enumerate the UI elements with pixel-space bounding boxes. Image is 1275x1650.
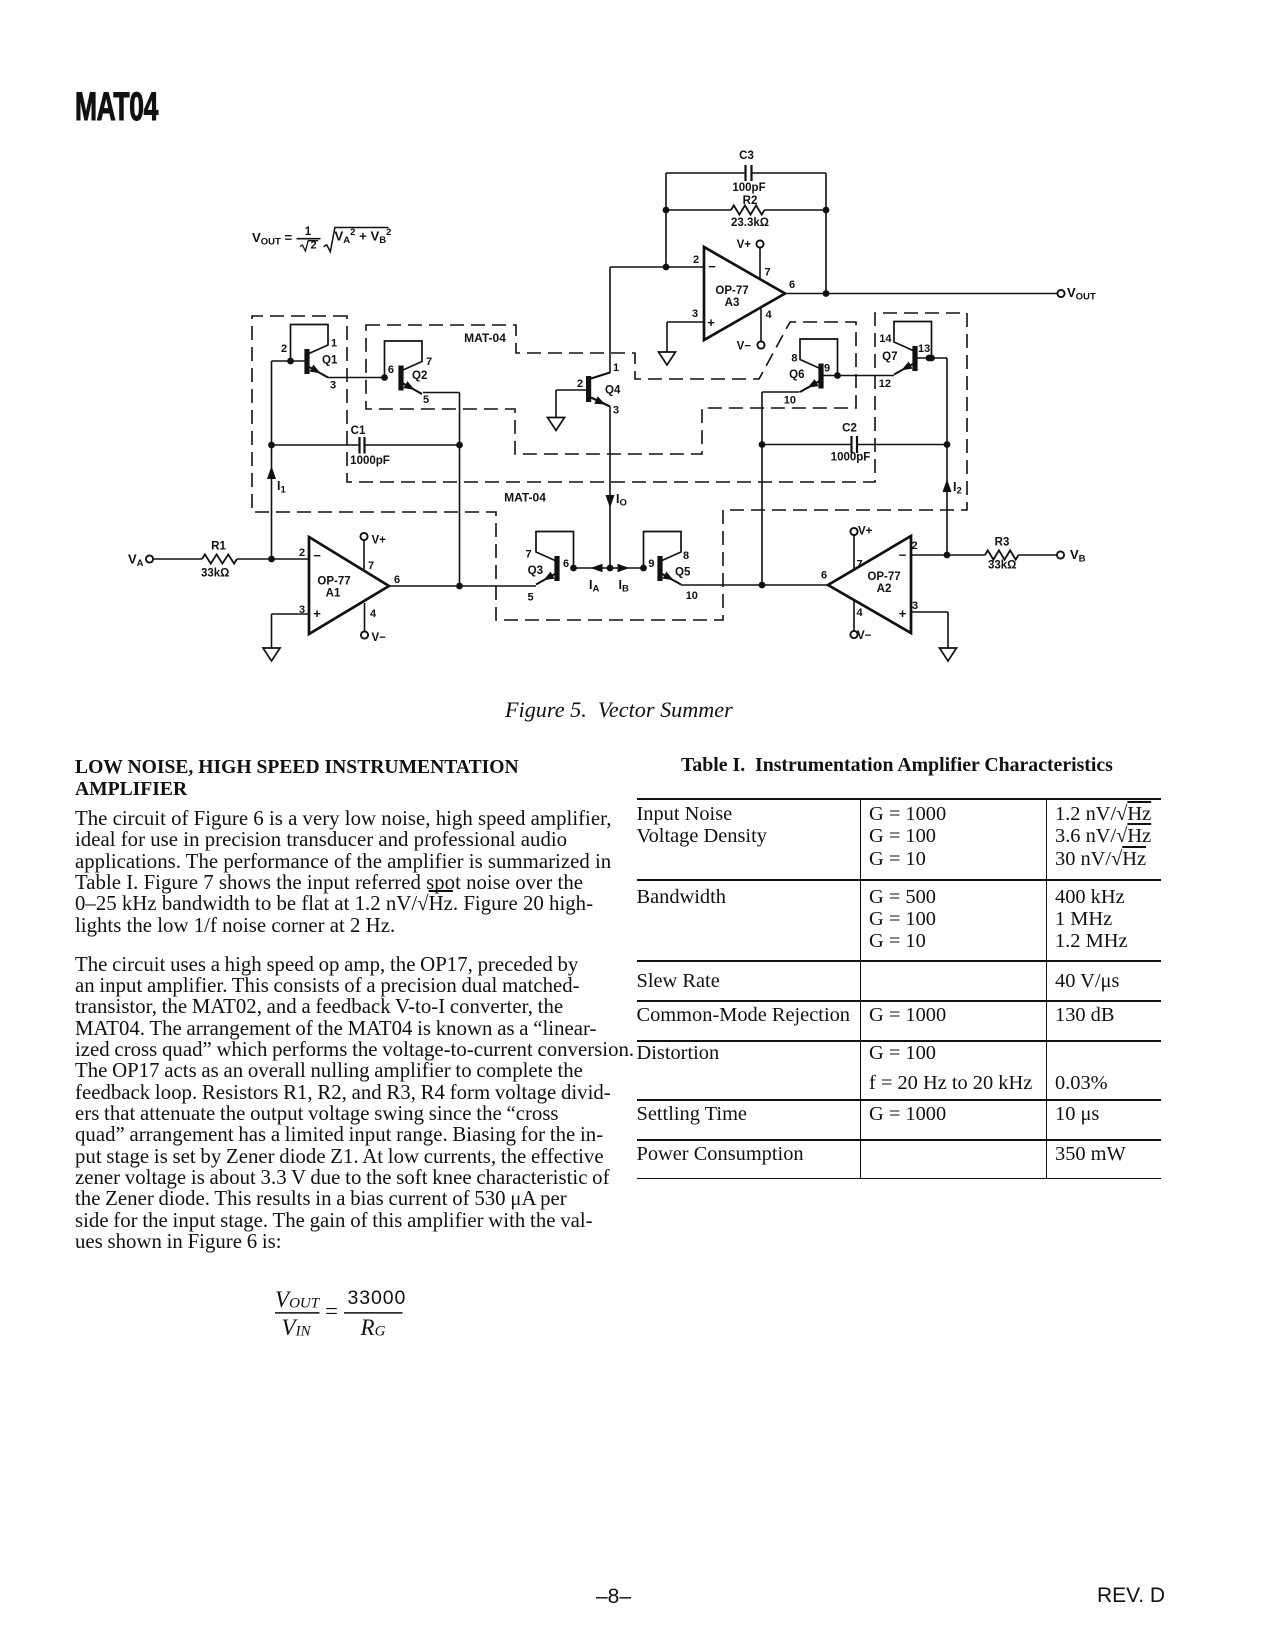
svg-text:Q3: Q3 (528, 565, 543, 577)
svg-text:6: 6 (394, 574, 400, 586)
svg-text:4: 4 (766, 309, 773, 321)
svg-text:7: 7 (525, 549, 531, 561)
svg-text:V−: V− (737, 341, 752, 353)
svg-text:OP-77: OP-77 (867, 571, 900, 583)
svg-text:V+: V+ (372, 535, 387, 547)
svg-text:V+: V+ (858, 526, 873, 538)
svg-text:33kΩ: 33kΩ (988, 560, 1016, 572)
svg-text:Q6: Q6 (789, 369, 804, 381)
svg-text:4: 4 (857, 607, 864, 619)
svg-text:2: 2 (912, 540, 918, 552)
svg-text:14: 14 (879, 333, 892, 345)
svg-text:−: − (313, 548, 321, 563)
svg-text:5: 5 (527, 592, 533, 604)
svg-text:23.3kΩ: 23.3kΩ (731, 217, 769, 229)
svg-text:10: 10 (686, 590, 698, 602)
svg-text:+: + (899, 606, 907, 621)
svg-text:V+: V+ (737, 239, 752, 251)
svg-text:12: 12 (879, 378, 891, 390)
svg-text:Q2: Q2 (412, 370, 427, 382)
svg-text:2: 2 (693, 254, 699, 266)
svg-text:OP-77: OP-77 (317, 576, 350, 588)
svg-text:8: 8 (683, 550, 689, 562)
svg-text:Q5: Q5 (675, 567, 691, 579)
svg-text:V−: V− (372, 632, 387, 644)
svg-text:3: 3 (613, 405, 619, 417)
svg-text:5: 5 (423, 394, 429, 406)
svg-text:1: 1 (613, 362, 619, 374)
svg-text:13: 13 (918, 343, 930, 355)
svg-text:7: 7 (857, 559, 863, 571)
svg-text:6: 6 (789, 279, 795, 291)
svg-text:I1: I1 (277, 479, 286, 496)
svg-text:7: 7 (765, 267, 771, 279)
svg-text:1000pF: 1000pF (831, 452, 871, 464)
svg-text:Q4: Q4 (605, 385, 621, 397)
svg-text:4: 4 (370, 608, 377, 620)
svg-text:C1: C1 (351, 425, 366, 437)
svg-text:8: 8 (791, 353, 797, 365)
svg-text:=: = (325, 1298, 338, 1323)
svg-text:6: 6 (821, 570, 827, 582)
svg-text:IO: IO (616, 492, 627, 509)
svg-text:VIN: VIN (282, 1315, 312, 1340)
svg-text:MAT-04: MAT-04 (464, 331, 506, 345)
svg-text:R1: R1 (211, 541, 226, 553)
svg-text:1000pF: 1000pF (350, 455, 390, 467)
svg-text:6: 6 (388, 364, 394, 376)
svg-text:VB: VB (1070, 547, 1086, 565)
svg-text:VA: VA (128, 552, 144, 570)
svg-text:Q7: Q7 (882, 351, 897, 363)
svg-text:VA2 + VB2: VA2 + VB2 (335, 227, 392, 246)
svg-text:+: + (313, 606, 321, 621)
svg-text:C2: C2 (842, 423, 857, 435)
svg-text:IA: IA (589, 578, 599, 595)
svg-text:3: 3 (912, 600, 918, 612)
svg-text:R3: R3 (995, 537, 1010, 549)
svg-text:RG: RG (360, 1315, 386, 1340)
svg-text:33000: 33000 (348, 1288, 407, 1309)
svg-text:VOUT: VOUT (275, 1288, 321, 1312)
svg-text:3: 3 (692, 308, 698, 320)
svg-text:9: 9 (824, 363, 830, 375)
svg-text:V−: V− (857, 630, 872, 642)
svg-text:2: 2 (281, 343, 287, 355)
svg-text:6: 6 (563, 558, 569, 570)
svg-text:A3: A3 (725, 297, 740, 309)
svg-text:−: − (708, 259, 716, 274)
svg-text:9: 9 (648, 558, 654, 570)
svg-text:OP-77: OP-77 (715, 285, 748, 297)
svg-text:100pF: 100pF (732, 182, 765, 194)
svg-text:VOUT =: VOUT = (252, 230, 293, 248)
svg-text:10: 10 (784, 395, 796, 407)
svg-text:33kΩ: 33kΩ (201, 567, 229, 579)
svg-text:7: 7 (426, 356, 432, 368)
svg-text:−: − (899, 547, 907, 562)
svg-text:1: 1 (331, 338, 337, 350)
svg-text:C3: C3 (739, 150, 754, 162)
svg-text:2: 2 (577, 378, 583, 390)
svg-text:I2: I2 (953, 480, 962, 497)
svg-text:A2: A2 (877, 583, 892, 595)
svg-text:7: 7 (368, 560, 374, 572)
svg-text:IB: IB (619, 578, 629, 595)
svg-text:R2: R2 (743, 195, 758, 207)
svg-text:2: 2 (299, 547, 305, 559)
svg-text:3: 3 (330, 380, 336, 392)
svg-text:VOUT: VOUT (1067, 285, 1096, 303)
svg-text:1: 1 (305, 226, 312, 238)
svg-text:+: + (707, 315, 715, 330)
svg-text:A1: A1 (326, 588, 341, 600)
svg-text:MAT-04: MAT-04 (504, 491, 546, 505)
svg-text:Q1: Q1 (322, 355, 338, 367)
